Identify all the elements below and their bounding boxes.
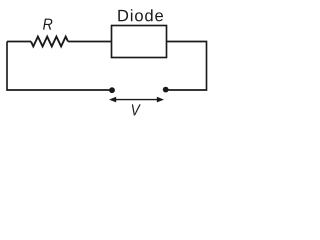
resistor R1 zigzag bbox=[31, 37, 68, 47]
label V bbox=[132, 104, 141, 115]
label R bbox=[43, 19, 52, 30]
node dot left terminal bbox=[109, 87, 115, 93]
node dot right terminal bbox=[163, 87, 169, 93]
label Diode bbox=[118, 9, 163, 21]
wire: top-left from corner to resistor bbox=[7, 41, 31, 43]
wire: diode box to top-right corner and down right side bbox=[166, 42, 207, 91]
wire: left side down and bottom to left terminal bbox=[7, 42, 112, 91]
diode box U1 bbox=[112, 26, 167, 58]
arrow V double-headed bbox=[109, 97, 164, 103]
wire: resistor to diode box bbox=[68, 41, 112, 43]
